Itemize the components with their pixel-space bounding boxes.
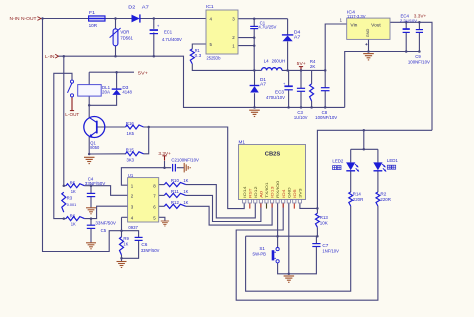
svg-text:L4: L4 bbox=[264, 58, 270, 63]
svg-text:1117-3.3V: 1117-3.3V bbox=[347, 14, 366, 19]
svg-text:C7: C7 bbox=[322, 243, 329, 248]
svg-text:U1: U1 bbox=[128, 173, 134, 178]
svg-text:CB2S: CB2S bbox=[265, 151, 281, 157]
svg-text:C3: C3 bbox=[297, 110, 303, 115]
svg-text:2525Db: 2525Db bbox=[207, 55, 222, 60]
svg-text:Vin: Vin bbox=[350, 22, 358, 27]
svg-text:L-OUT: L-OUT bbox=[65, 112, 79, 117]
svg-text:33NF/50V: 33NF/50V bbox=[141, 248, 160, 253]
svg-text:LED2: LED2 bbox=[332, 159, 344, 164]
svg-text:33NF/50V: 33NF/50V bbox=[95, 221, 116, 226]
svg-text:R15: R15 bbox=[126, 148, 135, 153]
svg-text:A7: A7 bbox=[294, 35, 301, 40]
svg-text:260UH: 260UH bbox=[272, 58, 286, 63]
svg-text:F1: F1 bbox=[89, 10, 96, 15]
svg-text:RST: RST bbox=[248, 187, 252, 197]
svg-text:7D561: 7D561 bbox=[120, 35, 133, 40]
svg-text:C6: C6 bbox=[141, 242, 148, 247]
svg-text:IO12: IO12 bbox=[254, 186, 258, 198]
svg-text:L-IN: L-IN bbox=[45, 54, 55, 59]
svg-text:R3: R3 bbox=[67, 196, 73, 201]
svg-text:3.3V+: 3.3V+ bbox=[158, 151, 171, 156]
svg-text:R9: R9 bbox=[123, 236, 129, 241]
svg-text:1U/10V: 1U/10V bbox=[294, 115, 308, 120]
svg-text:VDR: VDR bbox=[120, 30, 129, 35]
svg-text:100NF/10V: 100NF/10V bbox=[408, 60, 430, 65]
svg-text:IO5: IO5 bbox=[293, 189, 297, 198]
svg-text:2.2U/10V: 2.2U/10V bbox=[400, 18, 417, 23]
svg-text:0.3: 0.3 bbox=[195, 53, 202, 58]
svg-text:4.7U/400V: 4.7U/400V bbox=[162, 37, 182, 42]
svg-text:LED1: LED1 bbox=[387, 158, 399, 163]
svg-text:1K: 1K bbox=[71, 189, 76, 194]
svg-text:C5: C5 bbox=[101, 228, 107, 233]
svg-text:20A: 20A bbox=[102, 90, 110, 95]
svg-text:33NF/50V: 33NF/50V bbox=[85, 181, 106, 186]
svg-text:R12: R12 bbox=[171, 200, 180, 205]
svg-text:RX/IO0: RX/IO0 bbox=[276, 181, 280, 198]
svg-text:C8: C8 bbox=[322, 110, 328, 115]
svg-text:4148: 4148 bbox=[122, 90, 132, 95]
svg-text:A0: A0 bbox=[260, 191, 264, 198]
svg-text:R6: R6 bbox=[70, 213, 76, 218]
svg-text:220R: 220R bbox=[380, 197, 391, 202]
svg-text:3V3: 3V3 bbox=[299, 188, 303, 198]
svg-text:0.001: 0.001 bbox=[67, 202, 77, 207]
svg-text:C2100NF/10V: C2100NF/10V bbox=[171, 158, 199, 163]
svg-text:C9: C9 bbox=[415, 54, 421, 59]
svg-text:5V+: 5V+ bbox=[297, 61, 307, 66]
svg-text:D2: D2 bbox=[128, 4, 136, 9]
svg-text:R16: R16 bbox=[126, 121, 135, 126]
svg-text:1K: 1K bbox=[183, 200, 188, 205]
svg-text:R2: R2 bbox=[380, 192, 387, 197]
svg-text:N-IN N-OUT: N-IN N-OUT bbox=[10, 16, 37, 21]
svg-text:470U/10V: 470U/10V bbox=[266, 95, 285, 100]
svg-text:S1: S1 bbox=[259, 246, 265, 251]
svg-text:R5: R5 bbox=[70, 181, 76, 186]
svg-text:A7: A7 bbox=[260, 82, 267, 87]
svg-text:SW-PB: SW-PB bbox=[252, 252, 266, 257]
svg-text:IO13: IO13 bbox=[271, 186, 275, 198]
svg-text:IO14: IO14 bbox=[243, 186, 247, 197]
svg-text:Vout: Vout bbox=[371, 22, 381, 27]
svg-text:EC1: EC1 bbox=[164, 29, 173, 34]
svg-text:R13: R13 bbox=[320, 215, 329, 220]
svg-text:3.3V+: 3.3V+ bbox=[414, 14, 427, 19]
svg-text:R14: R14 bbox=[353, 192, 362, 197]
svg-text:0937: 0937 bbox=[128, 225, 138, 230]
svg-text:1K: 1K bbox=[123, 242, 128, 247]
svg-text:1K: 1K bbox=[183, 189, 188, 194]
svg-text:M1: M1 bbox=[239, 140, 246, 145]
svg-text:8050: 8050 bbox=[90, 145, 100, 150]
svg-text:5V+: 5V+ bbox=[138, 70, 149, 75]
svg-text:1NF/10V: 1NF/10V bbox=[322, 249, 339, 254]
svg-text:3K3: 3K3 bbox=[127, 158, 135, 163]
svg-text:10K: 10K bbox=[320, 221, 328, 226]
svg-text:4.7U/25V: 4.7U/25V bbox=[258, 25, 276, 30]
svg-text:1K5: 1K5 bbox=[127, 131, 135, 136]
svg-text:GND: GND bbox=[287, 187, 291, 198]
svg-text:1K: 1K bbox=[71, 222, 76, 227]
svg-text:1K: 1K bbox=[183, 178, 188, 183]
svg-text:GND: GND bbox=[365, 29, 370, 38]
svg-text:220R: 220R bbox=[353, 197, 364, 202]
svg-text:EC3: EC3 bbox=[275, 90, 285, 95]
svg-text:10R: 10R bbox=[89, 23, 98, 28]
svg-text:R11: R11 bbox=[171, 189, 180, 194]
svg-text:A7: A7 bbox=[142, 4, 150, 9]
svg-text:IC1: IC1 bbox=[206, 4, 214, 9]
svg-text:R10: R10 bbox=[171, 178, 180, 183]
svg-text:100NF/10V: 100NF/10V bbox=[315, 115, 337, 120]
svg-text:2K: 2K bbox=[310, 64, 316, 69]
svg-text:IO4: IO4 bbox=[282, 189, 286, 198]
svg-text:TX/IO1: TX/IO1 bbox=[265, 182, 269, 198]
